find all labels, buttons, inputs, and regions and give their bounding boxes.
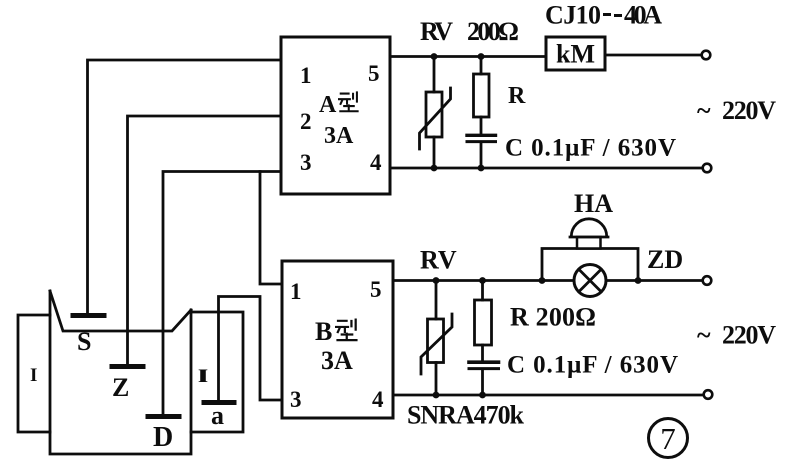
terminal L top (702, 51, 711, 60)
node R top B (479, 277, 486, 284)
junction dots (431, 53, 642, 398)
terminals (702, 51, 713, 399)
svg-text:4: 4 (372, 387, 384, 412)
contactor coil kM box (546, 37, 605, 70)
svg-text:S: S (77, 327, 91, 356)
svg-text:3: 3 (290, 387, 302, 412)
svg-text:C 0.1μF / 630V: C 0.1μF / 630V (505, 135, 676, 162)
wire electrode a to B pin3 (219, 297, 283, 401)
node RV top A (431, 53, 438, 60)
tube I (18, 315, 50, 432)
svg-text:40A: 40A (624, 1, 662, 30)
electrode Z (112, 364, 143, 369)
svg-text:C 0.1μF / 630V: C 0.1μF / 630V (507, 352, 678, 379)
svg-text:7: 7 (660, 421, 676, 456)
svg-text:3A: 3A (324, 123, 354, 149)
svg-text:220V: 220V (722, 96, 776, 125)
svg-text:CJ10: CJ10 (545, 1, 601, 30)
svg-text:ZD: ZD (647, 245, 683, 274)
electrode a (204, 400, 234, 405)
svg-text:A: A (319, 92, 337, 118)
terminal N bottom (704, 390, 713, 399)
op-amp U2 B-type block (282, 261, 393, 418)
svg-text:RV: RV (420, 17, 453, 46)
node HA left (539, 277, 546, 284)
tank walls (50, 291, 191, 454)
bell HA pedestal (577, 237, 601, 249)
node R top A (478, 53, 485, 60)
svg-text:1: 1 (300, 63, 312, 88)
node HA right (635, 277, 642, 284)
glyph 型 of A-type (338, 91, 359, 111)
figure number 7 (649, 419, 688, 458)
terminal N top (703, 164, 712, 173)
svg-text:220V: 220V (722, 321, 776, 350)
node RV bottom A (431, 165, 438, 172)
svg-text:R: R (508, 83, 526, 109)
svg-text:II: II (198, 366, 208, 387)
svg-text:SNRA470k: SNRA470k (407, 401, 525, 430)
wire branch D-line to B pin1 (260, 172, 282, 285)
wire pin1 A to S electrode (88, 60, 282, 313)
svg-text:200Ω: 200Ω (467, 17, 519, 46)
container II (191, 312, 243, 432)
svg-text:Z: Z (112, 373, 129, 402)
svg-text:kM: kM (556, 40, 595, 69)
node C bottom A (478, 165, 485, 172)
svg-text:5: 5 (370, 277, 382, 302)
node RV top B (433, 277, 440, 284)
svg-text:4: 4 (370, 150, 382, 175)
capacitor C (bottom) (469, 360, 499, 364)
electrode S (73, 313, 104, 318)
svg-text:~: ~ (697, 321, 711, 350)
varistor RV (top) (433, 57, 436, 93)
dash of CJ10-40A (603, 15, 622, 16)
bell HA branch (542, 249, 638, 281)
svg-text:5: 5 (368, 61, 380, 86)
lamp ZD (574, 265, 606, 297)
svg-text:3: 3 (300, 150, 312, 175)
electrode D (148, 414, 179, 419)
svg-text:1: 1 (290, 279, 302, 304)
tank water line (50, 291, 191, 331)
svg-text:RV: RV (420, 246, 457, 275)
svg-text:R 200Ω: R 200Ω (510, 303, 596, 332)
terminal L bottom (703, 276, 712, 285)
wire pin2 A to Z electrode (128, 116, 282, 365)
wire B pin5 top (393, 279, 702, 282)
resistor R (bottom) (481, 281, 484, 301)
svg-text:B: B (315, 317, 332, 346)
svg-text:2: 2 (300, 109, 312, 134)
svg-text:3A: 3A (321, 346, 353, 375)
wire kM to terminal (605, 54, 701, 57)
wire pin3 A to D electrode (163, 172, 281, 415)
resistor R (top) (480, 57, 483, 75)
svg-text:a: a (211, 401, 224, 430)
svg-text:HA: HA (574, 189, 613, 218)
svg-text:I: I (30, 365, 37, 386)
wire B pin4 bottom (393, 394, 704, 397)
node C bottom B (479, 392, 486, 399)
glyph 型 of B-type (335, 318, 358, 340)
wire A pin5 to kM (390, 55, 546, 58)
bell HA dome (570, 219, 608, 237)
svg-text:D: D (153, 422, 173, 453)
varistor RV (bottom) (435, 281, 438, 320)
node RV bottom B (433, 392, 440, 399)
svg-text:~: ~ (697, 96, 711, 125)
wire A pin4 bottom (390, 167, 703, 170)
op-amp U1 A-type block (281, 37, 390, 194)
capacitor C (top) (467, 134, 496, 137)
